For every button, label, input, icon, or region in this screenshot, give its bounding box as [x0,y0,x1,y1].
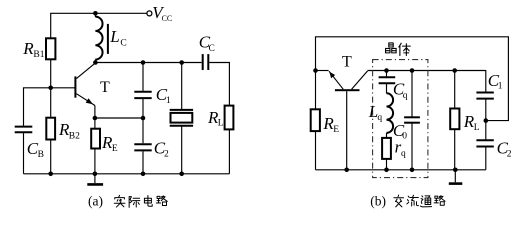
caption (a) hanzi lu4 [156,196,167,206]
label jingti (hanzi jing1) [386,43,397,53]
wire RB2 bottom [50,140,52,174]
svg-text:(b): (b) [370,193,386,208]
wire Lq-rq stub [386,133,388,138]
crystal XT body [171,113,193,123]
caption (b) hanzi jiao1 [394,195,404,207]
svg-text:B: B [38,150,44,160]
terminal VCC [147,11,152,16]
wire RE bottom [94,149,96,174]
svg-text:R: R [22,39,34,58]
resistor RL [225,106,234,130]
wire C2b bottom [485,147,487,170]
svg-text:0: 0 [402,132,407,142]
node RB2 bottom [48,172,53,177]
transistor T emitter [76,94,95,106]
svg-text:q: q [403,91,408,101]
transistor T2 collector diag [352,71,368,89]
wire emitter (b) [316,70,329,72]
svg-text:1: 1 [166,96,171,106]
wire emitter to mid [95,117,143,119]
wire base line [24,88,75,126]
node C2 bottom [141,172,146,177]
ground [94,174,96,183]
node C0 top [410,68,415,73]
node emitter (b) [313,68,318,73]
svg-text:T: T [100,79,110,96]
node crystal bottom [179,172,184,177]
capacitor CC [202,54,204,70]
wire Cq-Lq stub [386,84,388,93]
wire bottom rail [24,173,230,175]
caption (a) hanzi ji4 [129,197,140,208]
wire CB bottom [23,133,25,174]
wire crystal branch top [181,63,183,110]
wire C1-C2 mid [142,99,144,143]
svg-text:L: L [218,119,224,129]
node top rail / LC junction [93,11,98,16]
node base bottom [344,168,349,173]
svg-text:L: L [474,123,480,133]
node Cq bottom [384,168,389,173]
node ground junction [93,172,98,177]
node ground (b) [453,168,458,173]
capacitor C1b [476,92,493,94]
node emitter [93,116,98,121]
node base junction [48,86,53,91]
transistor T2 base bar [335,89,360,91]
node C1 top [141,60,146,65]
wire top rail [51,13,147,88]
ground (b) [454,170,456,183]
caption (b) hanzi tong1 [420,196,431,207]
wire C1b-C2b mid [485,99,487,139]
wire outer frame top [316,37,509,170]
svg-text:(a): (a) [88,194,103,209]
wire C0 branch [411,71,413,117]
svg-text:E: E [333,125,339,135]
svg-text:q: q [377,113,382,123]
wire C1b branch [485,70,487,92]
transistor T base bar [74,76,76,97]
wire RL bottom [228,129,230,173]
capacitor C1 [134,91,151,93]
inductor LC [95,17,102,60]
resistor RE2 [311,109,320,131]
wire crystal bottom [181,126,183,173]
wire base (b) [346,91,348,170]
caption (a) hanzi shi2 [114,195,125,207]
capacitor Cq [379,76,396,78]
wire RL2 branch [454,71,456,109]
caption (a) hanzi dian4 [144,196,152,207]
svg-text:1: 1 [498,82,503,92]
capacitor C2 [134,143,151,145]
wire collector rail [95,62,201,64]
transistor T2 emitter diag [329,71,343,89]
wire LC stubs [94,13,96,17]
wire bottom rail (b) [316,169,486,171]
resistor RE [91,129,100,149]
svg-text:2: 2 [164,149,169,159]
wire emitter down [94,106,96,119]
svg-text:C: C [209,44,215,54]
wire main rail (b) [368,70,486,72]
wire Cq stub [386,71,388,77]
svg-text:CC: CC [162,14,173,23]
capacitor C2b [476,139,493,141]
capacitor CB [15,126,33,128]
node collector [93,60,98,65]
node mid (b) [484,118,489,123]
wire rq bottom [386,159,388,170]
wire RE branch [94,118,96,129]
transistor T2 emitter arrow [329,72,335,78]
transistor T emitter arrow [86,98,93,104]
svg-text:2: 2 [507,150,512,160]
node RL2 top [452,68,457,73]
capacitor C0 [404,116,420,118]
node C0 bottom [410,168,415,173]
resistor RL2 [450,109,459,130]
node Cq top [384,68,389,73]
svg-text:B1: B1 [33,50,44,60]
svg-text:E: E [112,144,118,154]
wire RB2 branch [50,88,52,118]
wire RL2 bottom [454,129,456,170]
wire C2 bottom [142,151,144,174]
svg-text:L: L [109,27,119,46]
svg-text:B2: B2 [69,131,80,141]
node mid [141,116,146,121]
resistor rq [382,138,391,159]
resistor RB2 [46,118,55,140]
node crystal top [179,60,184,65]
wire C0 bottom [411,123,413,169]
label jingti (hanzi ti3) [399,43,410,55]
caption (b) hanzi liu2 [407,195,419,206]
svg-text:q: q [401,149,406,159]
svg-text:T: T [342,54,352,71]
transistor T collector [76,63,95,79]
wire CC to RL [209,63,229,106]
crystal XT plates [170,109,193,111]
crystal equivalent box [373,60,428,178]
caption (b) hanzi lu4 [434,196,445,206]
resistor RB1 [46,38,55,59]
wire C1 branch top [142,63,144,91]
inductor Lq [387,93,394,133]
svg-text:C: C [120,39,126,49]
inductor LC core bar [107,24,109,54]
